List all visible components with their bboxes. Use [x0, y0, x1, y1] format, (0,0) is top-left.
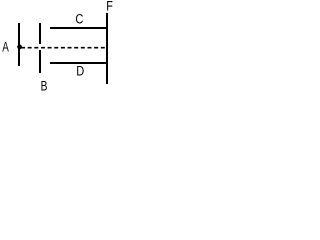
- svg-text:F: F: [106, 0, 113, 14]
- node A: source dot on plate: [17, 45, 22, 50]
- wire: dashed axis line: [21, 47, 107, 49]
- background: [0, 0, 113, 92]
- svg-text:A: A: [2, 40, 9, 55]
- wire: top horizontal line C: [50, 27, 107, 29]
- svg-text:B: B: [41, 79, 48, 93]
- svg-text:D: D: [76, 64, 84, 79]
- wire: left plate vertical line at A: [18, 23, 20, 66]
- wire: slit plate lower segment: [39, 50, 41, 73]
- svg-text:C: C: [75, 12, 83, 27]
- wire: slit plate upper segment: [39, 23, 41, 44]
- wire: bottom horizontal line D: [50, 62, 107, 64]
- wire: right screen vertical line: [106, 13, 108, 84]
